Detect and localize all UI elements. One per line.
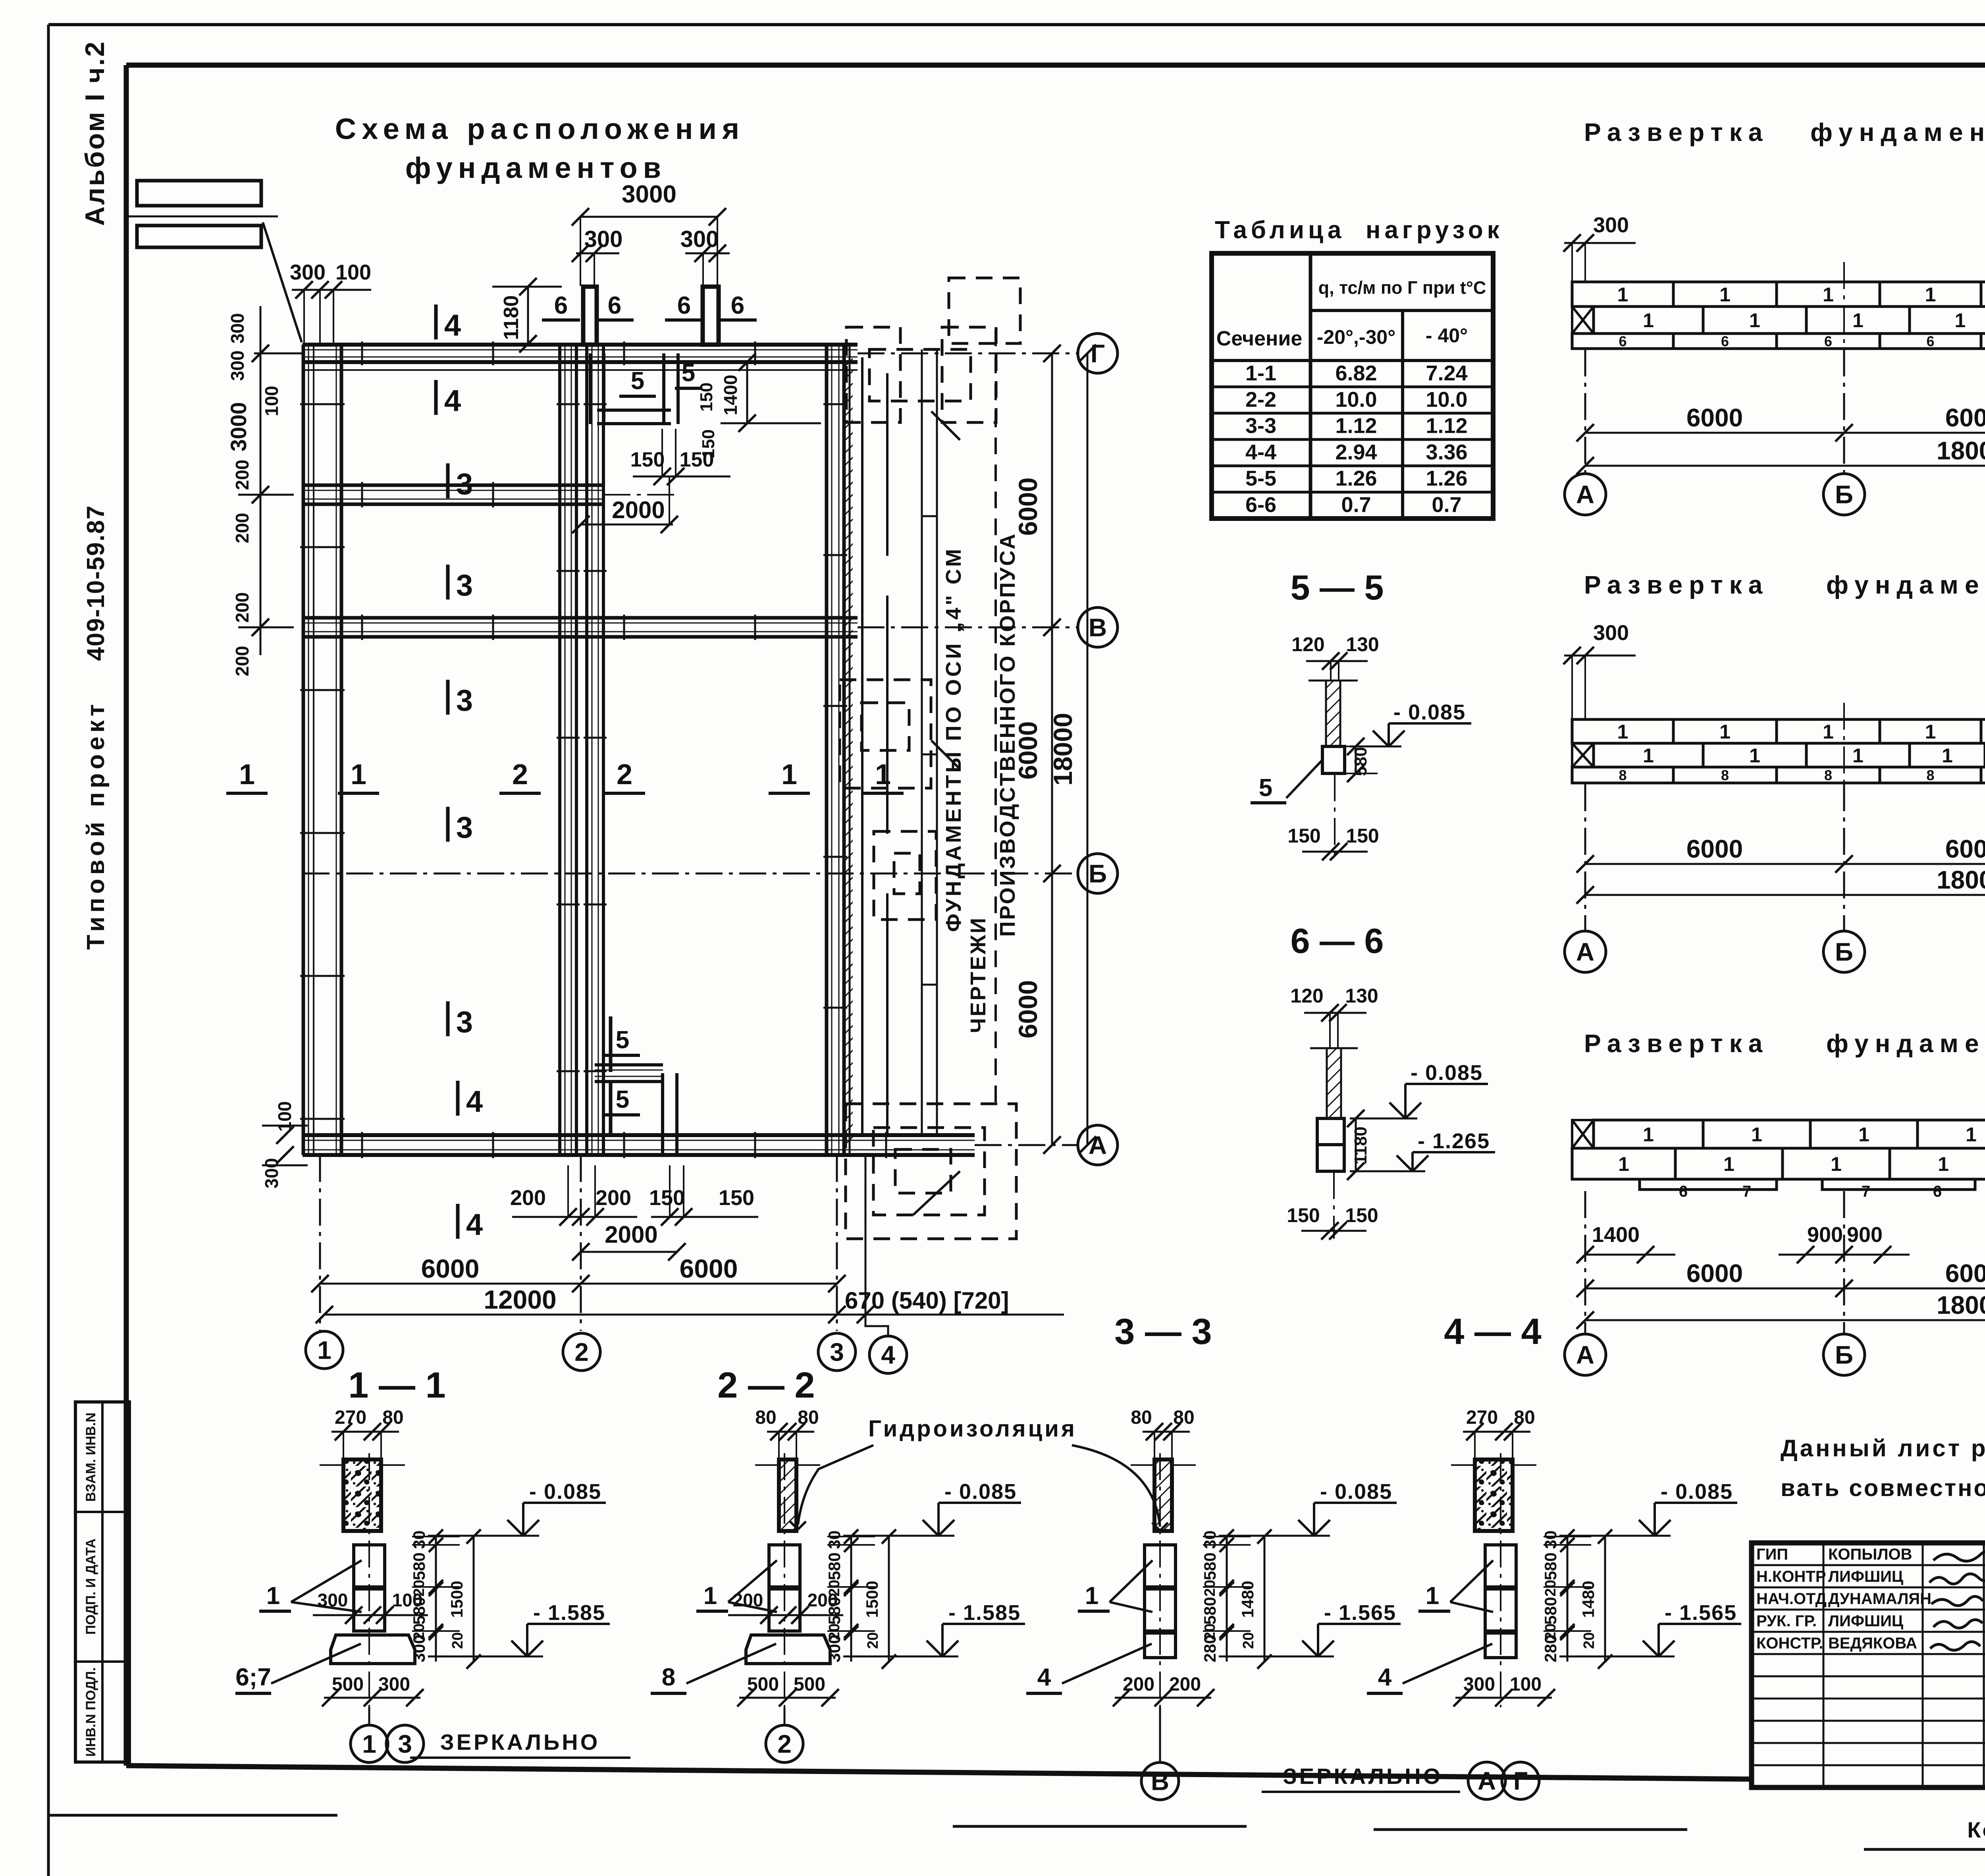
- svg-text:1: 1: [875, 759, 891, 791]
- svg-text:4: 4: [466, 1085, 483, 1118]
- plan wall along axis А (bottom exterior wall): [303, 1133, 975, 1137]
- svg-text:4: 4: [881, 1340, 895, 1369]
- svg-text:- 1.265: - 1.265: [1418, 1129, 1490, 1153]
- svg-text:20: 20: [1581, 1632, 1598, 1649]
- svg-text:200: 200: [1169, 1674, 1201, 1695]
- svg-text:6000: 6000: [1945, 835, 1985, 863]
- plan small room walls (upper, label 5): [589, 353, 592, 424]
- svg-text:6000: 6000: [1013, 980, 1043, 1039]
- svg-text:1: 1: [266, 1582, 280, 1610]
- svg-text:1400: 1400: [1592, 1223, 1640, 1247]
- svg-text:1: 1: [1643, 1124, 1654, 1146]
- svg-text:580: 580: [1201, 1597, 1219, 1625]
- svg-text:7: 7: [1742, 1183, 1751, 1200]
- svg-text:1 — 1: 1 — 1: [348, 1365, 445, 1406]
- svg-text:20: 20: [1202, 1580, 1218, 1596]
- strip 1 row 3 blocks: [1572, 334, 1673, 349]
- svg-text:А: А: [1576, 1340, 1594, 1369]
- stamp outer frame: [1752, 1543, 1985, 1787]
- svg-text:ИНВ.N ПОДЛ.: ИНВ.N ПОДЛ.: [83, 1668, 98, 1757]
- svg-text:5 — 5: 5 — 5: [1291, 568, 1384, 607]
- svg-text:1: 1: [1858, 1124, 1869, 1146]
- section 1-1 axis circles: [351, 1725, 388, 1762]
- svg-text:580: 580: [1351, 747, 1370, 776]
- svg-text:6000: 6000: [421, 1254, 480, 1283]
- stamp signatures (squiggles): [1933, 1551, 1985, 1561]
- svg-text:1480: 1480: [1579, 1581, 1598, 1618]
- axis line Г: [858, 353, 1077, 355]
- svg-text:80: 80: [755, 1407, 776, 1428]
- svg-text:- 1.585: - 1.585: [533, 1601, 605, 1625]
- svg-text:280: 280: [1541, 1635, 1560, 1662]
- section 4-4 pad dims: [1455, 1697, 1552, 1699]
- section 2-2 top dim line: [767, 1431, 814, 1433]
- svg-text:1: 1: [781, 759, 797, 791]
- svg-text:3: 3: [398, 1729, 412, 1758]
- strip 3 row 1 blocks: [1572, 1120, 1594, 1148]
- svg-text:Развертка: Развертка: [1584, 118, 1769, 147]
- svg-text:1: 1: [1925, 721, 1936, 743]
- svg-text:1: 1: [1852, 309, 1864, 332]
- svg-text:2000: 2000: [612, 497, 665, 523]
- svg-text:5: 5: [616, 1086, 629, 1113]
- strip 1 row 2 blocks: [1572, 307, 1594, 334]
- svg-text:200: 200: [510, 1186, 546, 1210]
- svg-text:100: 100: [261, 386, 282, 416]
- svg-text:ФУНДАМЕНТЫ ПО ОСИ „4" СМ: ФУНДАМЕНТЫ ПО ОСИ „4" СМ: [942, 547, 966, 932]
- axis circle Г right of plan: [1078, 334, 1118, 373]
- svg-text:300: 300: [680, 226, 719, 252]
- strip 2 row 1 blocks: [1572, 719, 1673, 743]
- svg-text:130: 130: [1346, 633, 1379, 656]
- svg-text:2000: 2000: [605, 1221, 657, 1248]
- axis line 3 extension to circle: [836, 1155, 838, 1331]
- svg-text:270: 270: [1466, 1407, 1498, 1428]
- svg-text:30: 30: [1541, 1531, 1560, 1549]
- svg-text:- 1.585: - 1.585: [948, 1601, 1021, 1625]
- svg-text:ПОДП. И ДАТА: ПОДП. И ДАТА: [83, 1539, 98, 1635]
- svg-text:500: 500: [794, 1674, 825, 1695]
- svg-text:1: 1: [1749, 744, 1760, 767]
- svg-text:5: 5: [631, 367, 644, 395]
- svg-text:80: 80: [1173, 1407, 1194, 1428]
- svg-text:8: 8: [1721, 767, 1729, 783]
- svg-text:вать совместно с листом КЖ-: вать совместно с листом КЖ-4: [1781, 1475, 1985, 1501]
- svg-text:6: 6: [1933, 1183, 1942, 1200]
- svg-text:7.24: 7.24: [1426, 361, 1467, 385]
- svg-text:10.0: 10.0: [1426, 388, 1467, 411]
- svg-text:6000: 6000: [1013, 478, 1043, 536]
- svg-text:1.12: 1.12: [1335, 414, 1377, 438]
- section 3-3 top dim line: [1143, 1431, 1190, 1433]
- svg-text:20: 20: [411, 1580, 428, 1596]
- svg-text:300: 300: [290, 260, 326, 284]
- section 3-3 centerline: [1159, 1453, 1161, 1707]
- svg-text:ЧЕРТЕЖИ: ЧЕРТЕЖИ: [966, 916, 990, 1033]
- svg-text:1: 1: [1955, 309, 1966, 332]
- svg-text:580: 580: [825, 1597, 844, 1625]
- svg-text:фундаментов: фундаментов: [1826, 1029, 1985, 1058]
- section 3-3 axis circles: [1141, 1762, 1179, 1800]
- strip 3 bottom dims 1400 900 900 1400: [1585, 1254, 1675, 1256]
- svg-text:4 — 4: 4 — 4: [1444, 1311, 1541, 1352]
- svg-text:фундаментов: фундаментов: [1810, 118, 1985, 147]
- svg-text:3: 3: [830, 1338, 844, 1366]
- svg-text:300: 300: [227, 313, 248, 344]
- svg-text:фундаментов: фундаментов: [1826, 571, 1985, 599]
- svg-text:200: 200: [232, 460, 252, 490]
- svg-text:3 — 3: 3 — 3: [1114, 1311, 1212, 1352]
- svg-text:1500: 1500: [447, 1581, 466, 1618]
- svg-text:150: 150: [649, 1186, 685, 1210]
- section 5-5 hatched wall stem: [1326, 681, 1340, 746]
- plan left vertical dim chain: [260, 306, 262, 655]
- svg-text:20: 20: [1542, 1580, 1559, 1596]
- svg-text:580: 580: [1201, 1552, 1219, 1580]
- svg-text:ВЗАМ. ИНВ.N: ВЗАМ. ИНВ.N: [83, 1413, 98, 1502]
- svg-text:1.26: 1.26: [1426, 467, 1467, 490]
- section 2-2 right dim chain 30/580/20/580/20: [850, 1537, 852, 1662]
- svg-text:18000: 18000: [1937, 436, 1985, 465]
- svg-text:1: 1: [1938, 1153, 1949, 1175]
- axis circle Б right of plan: [1078, 854, 1118, 893]
- section 4-4 column: [1475, 1460, 1513, 1531]
- svg-text:6: 6: [608, 292, 621, 319]
- svg-text:3.36: 3.36: [1426, 440, 1467, 464]
- svg-text:Г: Г: [1513, 1766, 1528, 1795]
- svg-text:6000: 6000: [1686, 1259, 1743, 1288]
- svg-text:фундаментов: фундаментов: [405, 151, 667, 184]
- svg-text:4: 4: [1037, 1664, 1051, 1691]
- svg-text:1: 1: [317, 1336, 331, 1364]
- svg-text:150: 150: [1346, 825, 1379, 847]
- section 6-6 stacked blocks: [1317, 1118, 1344, 1145]
- plan wall along axis 3 with hatched channel: [825, 345, 829, 1155]
- chimney pier 1 on top wall: [583, 287, 597, 345]
- svg-text:4: 4: [466, 1208, 483, 1242]
- svg-text:1: 1: [1852, 744, 1864, 767]
- svg-text:2: 2: [512, 759, 528, 791]
- svg-text:РУК. ГР.: РУК. ГР.: [1756, 1612, 1817, 1630]
- svg-text:300: 300: [584, 226, 623, 252]
- svg-text:6: 6: [554, 292, 568, 319]
- svg-text:Б: Б: [1089, 859, 1107, 888]
- svg-text:1.26: 1.26: [1335, 467, 1377, 490]
- svg-text:1: 1: [1723, 1153, 1734, 1175]
- svg-text:3: 3: [456, 1005, 473, 1039]
- svg-text:1: 1: [1823, 721, 1834, 743]
- dim 2000 from axis 2: [580, 524, 673, 526]
- sheet outer border bottom-left segment: [48, 1814, 337, 1817]
- plan wall along axis В: [303, 616, 858, 620]
- svg-text:3000: 3000: [226, 402, 251, 452]
- svg-text:1.12: 1.12: [1426, 414, 1467, 438]
- svg-text:- 0.085: - 0.085: [529, 1480, 601, 1504]
- svg-text:Данный лист рассматри-: Данный лист рассматри-: [1781, 1435, 1985, 1461]
- svg-text:6;7: 6;7: [235, 1664, 271, 1691]
- section 4-4 centerline: [1500, 1453, 1501, 1707]
- svg-text:Коп Ильиных: Коп Ильиных: [1967, 1817, 1985, 1842]
- legend slab bars top-left: [137, 181, 261, 206]
- plan wall along axis Г (top exterior wall): [303, 343, 858, 347]
- svg-text:900: 900: [1807, 1223, 1843, 1247]
- strip 3 pad segments with labels 6 7: [1640, 1179, 1777, 1190]
- strip 1 row 1 blocks: [1572, 282, 1673, 307]
- svg-text:1480: 1480: [1238, 1581, 1257, 1618]
- svg-text:80: 80: [798, 1407, 819, 1428]
- dim 1180 left of pier 1: [527, 287, 529, 344]
- svg-text:Схема расположения: Схема расположения: [335, 112, 745, 145]
- svg-text:1: 1: [1749, 309, 1760, 332]
- section 5-5 centerline: [1334, 774, 1336, 858]
- dashed tie line along axis 4 foundations: [994, 330, 997, 1104]
- axis line 2 extension to circle: [580, 1155, 582, 1331]
- svg-text:580: 580: [410, 1597, 428, 1625]
- svg-text:1: 1: [1831, 1153, 1842, 1175]
- section 3-3 right dim chain 30/580/20/580/20: [1226, 1537, 1228, 1662]
- svg-text:30: 30: [825, 1531, 844, 1549]
- axis line 1 extension to circle: [319, 1155, 321, 1331]
- svg-text:1: 1: [1751, 1124, 1762, 1146]
- svg-text:8: 8: [662, 1664, 675, 1691]
- plan interior wall H1 (3000 below Г): [303, 484, 603, 487]
- svg-text:300: 300: [378, 1674, 410, 1695]
- svg-text:1180: 1180: [500, 295, 523, 340]
- svg-text:150: 150: [1287, 825, 1320, 847]
- strip 2 axes and span dims: [1565, 931, 1606, 972]
- svg-text:- 0.085: - 0.085: [1393, 700, 1466, 724]
- section 3-3 column: [1154, 1460, 1172, 1531]
- svg-text:300: 300: [1593, 213, 1629, 237]
- svg-text:3: 3: [456, 569, 473, 602]
- svg-text:6000: 6000: [680, 1254, 738, 1283]
- svg-text:В: В: [1089, 613, 1107, 642]
- section 1-1 pad dims: [324, 1697, 420, 1699]
- svg-text:500: 500: [747, 1674, 779, 1695]
- svg-text:8: 8: [1926, 767, 1934, 783]
- svg-text:3: 3: [456, 811, 473, 844]
- svg-text:300: 300: [227, 351, 248, 381]
- svg-text:Развертка: Развертка: [1584, 571, 1769, 599]
- svg-text:ЛИФШИЦ: ЛИФШИЦ: [1828, 1612, 1903, 1630]
- svg-text:6.82: 6.82: [1335, 361, 1377, 385]
- svg-text:6: 6: [1619, 333, 1627, 349]
- svg-text:ДУНАМАЛЯН: ДУНАМАЛЯН: [1828, 1590, 1931, 1608]
- main drawing frame left: [124, 65, 129, 1766]
- main drawing frame bottom (slanted, to stamp): [126, 1766, 1752, 1779]
- leader from top bars to wall corner: [263, 222, 302, 342]
- svg-text:ВЕДЯКОВА: ВЕДЯКОВА: [1828, 1635, 1917, 1652]
- svg-text:130: 130: [1345, 985, 1378, 1007]
- plan thin wall near axis 4: [921, 349, 923, 1136]
- axis circle В right of plan: [1078, 607, 1118, 647]
- svg-text:200: 200: [232, 646, 252, 677]
- dashed foundation cluster near А: [846, 1104, 1016, 1239]
- svg-text:Таблица: Таблица: [1215, 216, 1345, 244]
- dim 1400 from wall Г to room wall: [746, 362, 748, 423]
- svg-text:- 1.565: - 1.565: [1665, 1601, 1737, 1625]
- svg-text:6: 6: [731, 292, 744, 319]
- section 3-3 pad dims: [1115, 1697, 1211, 1699]
- svg-text:500: 500: [332, 1674, 364, 1695]
- svg-text:ЛИФШИЦ: ЛИФШИЦ: [1828, 1568, 1903, 1585]
- svg-text:Н.КОНТР: Н.КОНТР: [1756, 1568, 1826, 1585]
- axis circle А right of plan: [1078, 1125, 1118, 1165]
- svg-text:2: 2: [777, 1729, 792, 1758]
- svg-text:6000: 6000: [1945, 403, 1985, 432]
- section 4-4 foundation blocks: [1485, 1545, 1516, 1587]
- load table grid: [1212, 253, 1493, 519]
- svg-text:А: А: [1576, 937, 1594, 966]
- plan right vertical dim line 6000/6000/6000: [1051, 353, 1053, 1145]
- plan top dim 3000 between piers: [580, 216, 717, 218]
- svg-text:1: 1: [239, 759, 255, 791]
- section 1-1 centerline: [368, 1453, 370, 1707]
- svg-text:1400: 1400: [720, 375, 741, 415]
- section 2-2 foundation blocks: [769, 1545, 800, 1587]
- svg-text:Типовой проект: Типовой проект: [82, 700, 110, 950]
- axis circle 1: [306, 1331, 343, 1369]
- svg-text:-20°,-30°: -20°,-30°: [1317, 326, 1395, 348]
- strip 2 row 2 blocks: [1572, 743, 1594, 767]
- svg-text:300: 300: [1593, 621, 1629, 645]
- svg-text:- 1.565: - 1.565: [1324, 1601, 1396, 1625]
- svg-text:150: 150: [1345, 1204, 1378, 1226]
- svg-text:8: 8: [1619, 767, 1627, 783]
- svg-text:1: 1: [1823, 283, 1834, 306]
- plan bottom dim 2000: [581, 1251, 677, 1253]
- svg-text:2 — 2: 2 — 2: [717, 1365, 815, 1406]
- sheet outer border top: [48, 23, 1985, 26]
- svg-text:1: 1: [1643, 744, 1654, 767]
- svg-text:1: 1: [1925, 283, 1936, 306]
- svg-text:300: 300: [1463, 1674, 1495, 1695]
- svg-text:670 (540) [720]: 670 (540) [720]: [845, 1287, 1009, 1314]
- svg-text:580: 580: [825, 1552, 844, 1580]
- svg-text:20: 20: [449, 1632, 466, 1649]
- section 2-2 axis circles: [766, 1725, 803, 1762]
- svg-text:8: 8: [1824, 767, 1832, 783]
- svg-text:А: А: [1576, 480, 1594, 509]
- sheet outer border left: [47, 25, 50, 1876]
- svg-text:12000: 12000: [484, 1285, 557, 1314]
- svg-text:150: 150: [719, 1186, 754, 1210]
- svg-text:200: 200: [1123, 1674, 1154, 1695]
- svg-text:20: 20: [865, 1632, 881, 1649]
- svg-text:ГИП: ГИП: [1756, 1546, 1788, 1563]
- svg-text:18000: 18000: [1048, 713, 1077, 786]
- svg-text:6: 6: [1824, 333, 1832, 349]
- axis line Б (no wall): [303, 873, 1077, 875]
- dashed foundation cluster between В and Б: [840, 680, 931, 788]
- svg-text:6: 6: [1926, 333, 1934, 349]
- svg-text:30: 30: [410, 1531, 428, 1549]
- svg-text:1: 1: [703, 1582, 717, 1610]
- svg-text:900: 900: [1847, 1223, 1883, 1247]
- plan top dim 300 at pier 1: [576, 253, 619, 255]
- strip 3 row 2 blocks: [1572, 1148, 1675, 1179]
- section 1-1 top dim line: [331, 1431, 399, 1433]
- strip 2 top dim 300 left: [1564, 655, 1636, 657]
- svg-text:150: 150: [697, 382, 716, 411]
- svg-text:Г: Г: [1091, 339, 1105, 368]
- section 6-6 hatched wall stem: [1327, 1048, 1341, 1118]
- stamp signature table grid: [1752, 1564, 1985, 1566]
- svg-text:1-1: 1-1: [1245, 361, 1276, 385]
- svg-text:2.94: 2.94: [1335, 440, 1377, 464]
- svg-text:4: 4: [444, 384, 461, 418]
- main drawing frame top: [126, 63, 1985, 68]
- svg-text:200: 200: [595, 1186, 631, 1210]
- svg-text:- 0.085: - 0.085: [1411, 1061, 1483, 1085]
- svg-text:1: 1: [1966, 1124, 1977, 1146]
- svg-text:ПРОИЗВОДСТВЕННОГО КОРПУСА: ПРОИЗВОДСТВЕННОГО КОРПУСА: [996, 532, 1019, 937]
- plan right vertical dim line 18000: [1087, 353, 1089, 1145]
- svg-text:580: 580: [1541, 1552, 1560, 1580]
- svg-text:6000: 6000: [1945, 1259, 1985, 1288]
- svg-text:4: 4: [1378, 1664, 1392, 1691]
- axis line 4 extension with jog: [865, 1155, 867, 1317]
- svg-text:200: 200: [232, 513, 252, 544]
- svg-text:1: 1: [1426, 1582, 1439, 1610]
- plan top dim 300 at pier 2: [685, 253, 730, 255]
- svg-text:120: 120: [1290, 985, 1323, 1007]
- axis circle 3: [818, 1333, 856, 1371]
- plan left exterior wall (axis 1): [302, 345, 305, 1155]
- svg-text:6 — 6: 6 — 6: [1291, 921, 1384, 960]
- svg-text:580: 580: [410, 1552, 428, 1580]
- svg-text:300: 300: [410, 1635, 428, 1662]
- svg-text:КОПЫЛОВ: КОПЫЛОВ: [1828, 1546, 1912, 1563]
- svg-text:1: 1: [1617, 721, 1628, 743]
- svg-text:НАЧ.ОТД: НАЧ.ОТД: [1756, 1590, 1827, 1608]
- section 6-6 dim 1180: [1355, 1118, 1357, 1171]
- svg-text:1500: 1500: [863, 1581, 881, 1618]
- svg-text:80: 80: [1131, 1407, 1152, 1428]
- svg-text:6: 6: [677, 292, 691, 319]
- section 1-1 right dim chain 30/580/20/580/20: [435, 1537, 437, 1662]
- svg-text:120: 120: [1291, 633, 1324, 656]
- plan small room walls (lower, label 5): [595, 1063, 663, 1066]
- svg-text:20: 20: [1240, 1632, 1257, 1649]
- svg-text:3000: 3000: [622, 181, 676, 208]
- svg-text:Гидроизоляция: Гидроизоляция: [868, 1416, 1077, 1442]
- bottom short line 1: [953, 1825, 1247, 1828]
- svg-text:30: 30: [1201, 1531, 1219, 1549]
- svg-text:3: 3: [456, 467, 473, 501]
- strip 1 top dim 300 left: [1564, 242, 1636, 244]
- svg-text:Развертка: Развертка: [1584, 1029, 1769, 1058]
- section 3-3 foundation blocks: [1145, 1545, 1176, 1587]
- svg-text:Б: Б: [1835, 937, 1853, 966]
- svg-text:4: 4: [444, 308, 461, 342]
- svg-text:6000: 6000: [1686, 403, 1743, 432]
- section 5-5 dim 580: [1355, 746, 1357, 773]
- svg-text:150: 150: [1287, 1204, 1320, 1226]
- plan bottom dim line 12000 and 670: [324, 1314, 1064, 1316]
- svg-text:5-5: 5-5: [1245, 467, 1276, 490]
- section 4-4 top dim line: [1463, 1431, 1530, 1433]
- svg-text:3: 3: [456, 684, 473, 717]
- section 1-1 column: [343, 1460, 381, 1531]
- svg-text:7: 7: [1862, 1183, 1870, 1200]
- svg-text:1: 1: [1643, 309, 1654, 332]
- svg-text:КОНСТР.: КОНСТР.: [1756, 1635, 1823, 1652]
- svg-text:280: 280: [1201, 1635, 1219, 1662]
- svg-text:4-4: 4-4: [1245, 440, 1276, 464]
- dashed foundation cluster near Г: [949, 278, 1020, 343]
- svg-text:А: А: [1478, 1766, 1496, 1795]
